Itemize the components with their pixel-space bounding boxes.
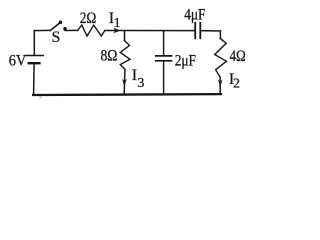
- battery B1 positive plate (long thin): [26, 55, 43, 57]
- svg-text:1: 1: [114, 16, 121, 31]
- capacitor C2 4uF right plate: [199, 23, 201, 38]
- wire: right vertical bottom (4ohm to bottom-right corner): [219, 77, 221, 94]
- resistor R1 2ohm zigzag: [78, 25, 105, 36]
- switch S right contact dot: [63, 27, 67, 31]
- capacitor C2 4uF left plate: [194, 23, 196, 38]
- wire: 8ohm branch bottom to bottom rail: [123, 69, 126, 94]
- svg-text:2μF: 2μF: [175, 53, 196, 70]
- svg-text:8Ω: 8Ω: [101, 48, 118, 65]
- switch S blade tip dot: [59, 21, 63, 25]
- wire: bottom horizontal rail: [33, 93, 221, 96]
- svg-text:4μF: 4μF: [184, 7, 205, 24]
- stray mark below bottom-left rail: [39, 97, 41, 99]
- current arrow I3 head (on 8ohm branch, pointing down): [122, 79, 127, 87]
- wire: left vertical bottom (battery minus plate to bottom-left corner): [33, 64, 36, 95]
- capacitor C1 2uF bottom plate: [156, 60, 172, 62]
- wire: 2uF branch top stub: [163, 31, 165, 56]
- wire: 2ohm end through 8ohm and 2uF junctions to 4uF left plate: [105, 30, 195, 32]
- wire: top-left horizontal from corner to switch blade: [34, 29, 50, 31]
- resistor R2 8ohm zigzag: [120, 41, 130, 70]
- svg-text:6V: 6V: [9, 53, 27, 70]
- wire: left vertical top (top-left corner down to battery plus plate): [33, 31, 35, 56]
- svg-text:4Ω: 4Ω: [230, 48, 246, 65]
- svg-text:3: 3: [137, 76, 144, 91]
- svg-text:2Ω: 2Ω: [80, 10, 97, 27]
- current arrow I2 head (on right branch, pointing down): [218, 80, 223, 88]
- wire: switch right contact to 2ohm resistor start: [65, 29, 77, 31]
- capacitor C1 2uF top plate: [156, 55, 172, 57]
- svg-text:2: 2: [233, 77, 240, 92]
- current arrow I1 head (on top wire, pointing right): [113, 28, 120, 33]
- wire: 8ohm branch top stub: [124, 31, 126, 41]
- svg-text:S: S: [52, 29, 61, 46]
- resistor R3 4ohm zigzag: [215, 39, 227, 78]
- switch S blade: [50, 23, 60, 31]
- wire: 2uF branch bottom to bottom rail: [163, 62, 165, 95]
- battery B1 negative plate (short thick): [29, 62, 40, 64]
- wire: right vertical top (corner down to 4ohm): [219, 31, 221, 39]
- svg-text:I: I: [132, 67, 137, 84]
- wire: 4uF right plate to top-right corner: [200, 30, 220, 32]
